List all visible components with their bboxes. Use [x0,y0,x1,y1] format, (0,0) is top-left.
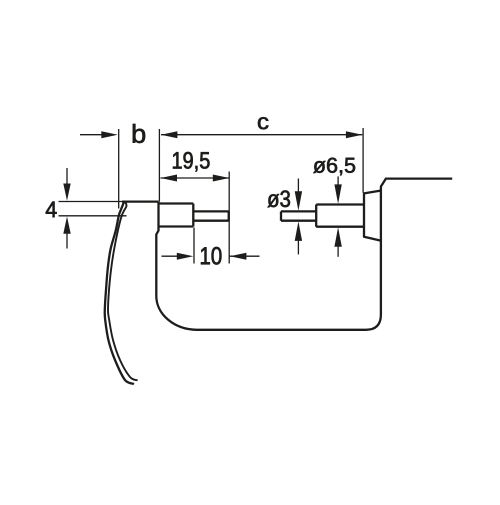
label 19,5 [173,152,210,172]
dim o3 down arrow tail [297,179,299,194]
dim o3 up arrow tail [297,240,299,254]
extension line at anvil face (x=159.4) [158,129,160,202]
arrow 19,5 left (points left) [161,175,178,182]
arrow c right (points right) [346,131,363,138]
frame arm inner curve [108,202,138,381]
thick part outlines [105,179,452,384]
arrow 19,5 right (points right) [213,175,230,182]
arrow 10 right (points left) [230,253,247,260]
arrow b (points right) [101,131,118,138]
frame inner contour [156,179,452,330]
arrow o6,5 lower (points up) [334,227,341,247]
label 4 [46,202,57,218]
spindle rod [281,211,316,220]
arrow 4 lower (points up) [63,217,70,234]
label o3 [268,191,291,208]
arrow o3 upper (points down) [295,191,302,211]
arrow 4 upper (points down) [63,184,70,201]
label b [133,124,145,143]
spindle sleeve [316,205,364,227]
dim b tail line [80,134,104,136]
extension line at spindle cone (x=363.1) [362,128,364,193]
thin dimension/extension lines [59,128,364,264]
dim c line [161,134,362,136]
dimension texts [46,117,355,264]
dim 4 lower extension [59,215,127,217]
arrow o6,5 upper (points down) [334,184,341,204]
extension line below anvil face (x=194) [193,228,195,264]
label o6,5 [313,158,355,176]
arrow 10 left (points right) [177,253,194,260]
dim 4 lower arrow tail [66,231,68,249]
frame arm outer curve [105,202,134,384]
arrowheads [63,131,362,260]
dim 4 upper arrow tail [66,168,68,187]
label c [258,117,268,129]
frame shelf edge [122,200,159,202]
extension line at frame tip (x=118.7) [118,129,120,209]
dim o6,5 down arrow tail [337,176,339,186]
dim 10 right tail [230,255,260,257]
dim 19,5 line [161,177,230,179]
label 10 [201,247,221,265]
arrow c left (points left) [161,131,178,138]
dim o6,5 up arrow tail [337,245,339,257]
extension line at rod end (x=229.2) [228,172,230,264]
anvil block [159,202,194,227]
spindle cone [364,191,381,241]
arrow o3 lower (points up) [295,221,302,241]
dim 4 upper extension [59,201,123,203]
dim 10 left tail [162,255,180,257]
anvil measuring rod [193,211,228,220]
